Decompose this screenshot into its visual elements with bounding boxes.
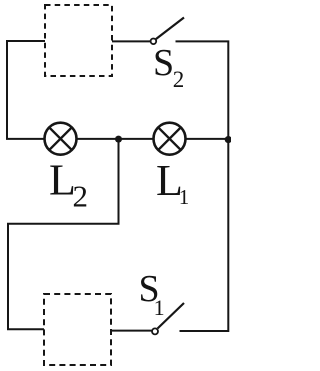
svg-text:2: 2 [173,67,185,92]
wire L1 to right rail [186,138,229,140]
wire box B2 right pin to switch S1 [111,330,152,332]
box B2 (bottom dashed component box) [44,294,111,365]
switch S2 pivot circle [151,39,157,45]
junction node A (dot) [115,136,122,143]
svg-text:1: 1 [154,295,165,320]
switch S1 blade [158,303,185,329]
switch S1 pivot circle [152,328,158,334]
junction node B (dot on right rail) [225,136,232,143]
wire L2 to junction node [77,138,119,140]
box B1 (top dashed component box) [45,5,112,76]
switch S2 blade [156,18,184,40]
lamp L1 symbol [154,123,186,155]
wire middle branch (junction down, across, down to box B2) [8,140,119,329]
wire junction to lamp L1 [119,138,154,140]
svg-text:1: 1 [179,185,190,209]
wire top-left loop (box B1 left pin to lamp L2) [7,41,45,139]
wire right side (S2 to right rail down to S1) [176,41,229,331]
lamp L2 symbol [45,123,77,155]
wire S2 left (box B1 right pin to switch S2) [112,40,151,42]
svg-text:S: S [153,42,174,84]
svg-text:2: 2 [73,179,89,214]
